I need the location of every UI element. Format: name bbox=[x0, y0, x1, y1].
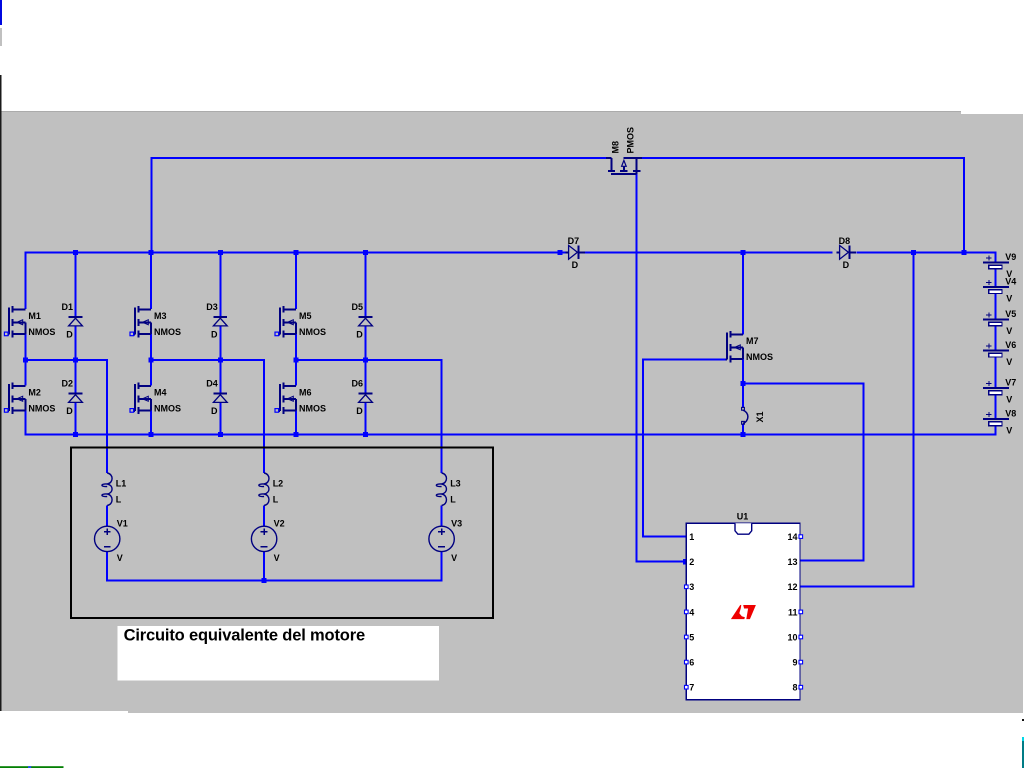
svg-text:D1: D1 bbox=[62, 302, 74, 312]
junction top rail x=559.8 bbox=[557, 250, 562, 255]
wire: M2 M4 M6 drains bbox=[25, 360, 296, 386]
svg-text:M4: M4 bbox=[154, 388, 167, 398]
svg-text:V: V bbox=[274, 553, 280, 563]
wire: top loop right bbox=[642, 158, 964, 252]
motor equivalent circuit box bbox=[71, 448, 493, 619]
svg-text:M3: M3 bbox=[154, 311, 167, 321]
U1 pin 4 marker bbox=[685, 610, 689, 614]
svg-text:M5: M5 bbox=[299, 311, 312, 321]
svg-text:X1: X1 bbox=[755, 411, 765, 422]
svg-text:V: V bbox=[451, 553, 457, 563]
wire: D3 leads bbox=[219, 252, 221, 360]
junction mid rail x=151 bbox=[149, 358, 154, 363]
junction top rail x=75.5 bbox=[73, 250, 78, 255]
svg-text:M1: M1 bbox=[28, 311, 41, 321]
junction bottom rail x=296 bbox=[294, 432, 299, 437]
junction top rail x=151 bbox=[149, 250, 154, 255]
junction M7 source node bbox=[741, 381, 746, 386]
wire: M5 drain bbox=[295, 252, 297, 309]
diode D6 bbox=[359, 393, 373, 395]
transistor M2 (NMOS) bbox=[8, 382, 26, 414]
svg-text:V7: V7 bbox=[1005, 378, 1016, 388]
svg-text:V: V bbox=[1006, 326, 1012, 336]
wire: top loop left bbox=[152, 158, 606, 252]
diode D2 bbox=[69, 393, 83, 395]
wire: M3 drain bbox=[150, 252, 152, 309]
svg-text:4: 4 bbox=[689, 607, 694, 617]
U1 pin 3 marker bbox=[685, 585, 689, 589]
junction mid rail x=220.3 bbox=[218, 358, 223, 363]
svg-text:V9: V9 bbox=[1005, 252, 1016, 262]
svg-text:6: 6 bbox=[689, 658, 694, 668]
svg-text:L1: L1 bbox=[116, 479, 127, 489]
svg-text:13: 13 bbox=[787, 557, 797, 567]
svg-text:NMOS: NMOS bbox=[28, 327, 55, 337]
voltage source V8 (battery) bbox=[983, 412, 1009, 426]
LT logo bbox=[731, 605, 756, 619]
svg-text:8: 8 bbox=[792, 683, 797, 693]
diode D5 bbox=[359, 316, 373, 318]
svg-text:U1: U1 bbox=[737, 512, 749, 522]
voltage source V5 (battery) bbox=[983, 312, 1009, 326]
svg-text:9: 9 bbox=[792, 658, 797, 668]
svg-text:D: D bbox=[211, 406, 218, 416]
svg-text:2: 2 bbox=[689, 557, 694, 567]
wire: phase B mid rail + tap bbox=[151, 360, 264, 473]
svg-text:V3: V3 bbox=[451, 519, 462, 529]
svg-text:L: L bbox=[273, 495, 279, 505]
svg-text:D: D bbox=[843, 260, 850, 270]
wire: M7 source to U1 pin13 bbox=[743, 384, 863, 561]
svg-text:D: D bbox=[356, 329, 363, 339]
wire: rail D7 to D8 bbox=[585, 251, 832, 253]
svg-text:NMOS: NMOS bbox=[154, 404, 181, 414]
wire: X1 leads bbox=[742, 384, 744, 435]
U1 pin 14 marker bbox=[799, 535, 803, 539]
wire: motor branch A/C bottoms bbox=[107, 506, 441, 581]
transistor M5 (NMOS) bbox=[278, 306, 296, 338]
caption box bbox=[118, 626, 439, 681]
voltage source V2 bbox=[251, 526, 276, 551]
wire: D2 leads bbox=[75, 360, 77, 435]
svg-text:V5: V5 bbox=[1005, 309, 1016, 319]
svg-text:NMOS: NMOS bbox=[28, 404, 55, 414]
svg-text:NMOS: NMOS bbox=[746, 352, 773, 362]
svg-text:D2: D2 bbox=[62, 379, 74, 389]
svg-text:5: 5 bbox=[689, 632, 694, 642]
svg-text:L3: L3 bbox=[450, 479, 461, 489]
junction bottom rail x=151 bbox=[149, 432, 154, 437]
svg-text:14: 14 bbox=[787, 532, 797, 542]
gate terminal square M3 bbox=[130, 332, 134, 336]
svg-text:V2: V2 bbox=[274, 519, 285, 529]
junction mid rail x=75.5 bbox=[73, 358, 78, 363]
voltage source V6 (battery) bbox=[983, 343, 1009, 357]
diode D8 bbox=[837, 251, 857, 253]
svg-text:D6: D6 bbox=[352, 379, 364, 389]
voltage source V1 bbox=[95, 526, 120, 551]
svg-text:D5: D5 bbox=[352, 302, 364, 312]
transistor M1 (NMOS) bbox=[8, 306, 26, 338]
wire: bottom source rail bbox=[25, 410, 995, 434]
junction top rail x=220.3 bbox=[218, 250, 223, 255]
U1 pin 6 marker bbox=[685, 660, 689, 664]
wire: D1 leads bbox=[75, 252, 77, 360]
diode D4 bbox=[213, 393, 227, 395]
svg-text:D3: D3 bbox=[206, 302, 218, 312]
wire: M7 gate to U1 pin1 bbox=[643, 360, 727, 537]
svg-text:11: 11 bbox=[788, 607, 798, 617]
svg-text:V4: V4 bbox=[1005, 277, 1016, 287]
svg-text:NMOS: NMOS bbox=[299, 327, 326, 337]
svg-text:D: D bbox=[572, 260, 579, 270]
junction bottom rail x=365.5 bbox=[363, 432, 368, 437]
U1 pin 5 marker bbox=[685, 635, 689, 639]
window edge artifact: gray bar bbox=[0, 28, 2, 46]
svg-text:NMOS: NMOS bbox=[299, 404, 326, 414]
inductor L1 bbox=[102, 473, 112, 506]
subcircuit X1 bbox=[743, 410, 748, 423]
svg-text:M2: M2 bbox=[28, 388, 41, 398]
wire: D5 leads bbox=[365, 252, 367, 360]
junction mid rail x=25.4 bbox=[23, 358, 28, 363]
right edge tick bbox=[1022, 719, 1024, 721]
U1 pin 11 marker bbox=[799, 610, 803, 614]
wire: U1 pin12 to supply rail bbox=[800, 252, 914, 586]
junction top rail x=365.5 bbox=[363, 250, 368, 255]
wire: battery stack links bbox=[994, 269, 996, 419]
transistor M4 (NMOS) bbox=[133, 382, 151, 414]
junction bottom rail x=743 bbox=[741, 432, 746, 437]
junction mid rail x=296 bbox=[294, 358, 299, 363]
svg-text:L: L bbox=[116, 495, 122, 505]
junction bottom rail x=220.3 bbox=[218, 432, 223, 437]
U1 pin 10 marker bbox=[799, 635, 803, 639]
svg-text:D: D bbox=[356, 406, 363, 416]
wire: rail D8 to battery bbox=[856, 252, 995, 262]
wire: D6 leads bbox=[365, 360, 367, 435]
voltage source V3 bbox=[429, 526, 454, 551]
svg-text:10: 10 bbox=[787, 632, 797, 642]
gate terminal square M5 bbox=[275, 332, 279, 336]
taskbar fragment green bar bbox=[0, 766, 64, 768]
svg-text:V: V bbox=[117, 553, 123, 563]
gate terminal square M4 bbox=[130, 409, 134, 413]
svg-text:Circuito equivalente del motor: Circuito equivalente del motore bbox=[124, 627, 365, 645]
op-amp/IC U1 body bbox=[686, 523, 800, 699]
svg-text:V8: V8 bbox=[1005, 409, 1016, 419]
junction bottom rail x=75.5 bbox=[73, 432, 78, 437]
U1 notch bbox=[735, 523, 752, 534]
wire: motor branch B bbox=[263, 506, 265, 581]
U1 pin 7 marker bbox=[685, 685, 689, 689]
svg-text:V6: V6 bbox=[1005, 340, 1016, 350]
inductor L3 bbox=[436, 473, 446, 506]
diode D3 bbox=[213, 316, 227, 318]
svg-text:M8: M8 bbox=[610, 141, 620, 154]
window edge artifact: blue bar top-left bbox=[0, 0, 2, 25]
svg-text:D7: D7 bbox=[568, 236, 580, 246]
junction top rail x=296 bbox=[294, 250, 299, 255]
svg-text:3: 3 bbox=[689, 582, 694, 592]
transistor M3 (NMOS) bbox=[133, 306, 151, 338]
svg-text:M6: M6 bbox=[299, 388, 312, 398]
wire: M8 drain to U1 pin2 bbox=[637, 174, 687, 562]
svg-text:L2: L2 bbox=[273, 479, 284, 489]
schematic window background bbox=[1, 114, 1023, 711]
U1 pin 8 marker bbox=[799, 685, 803, 689]
junction U1 pin2 bbox=[683, 559, 689, 565]
junction motor star point bbox=[262, 578, 267, 583]
svg-text:M7: M7 bbox=[746, 336, 759, 346]
junction mid rail x=365.5 bbox=[363, 358, 368, 363]
gate terminal square M1 bbox=[4, 332, 8, 336]
transistor M8 (PMOS, rotated) bbox=[606, 158, 642, 174]
transistor M6 (NMOS) bbox=[278, 382, 296, 414]
junction top rail x=743 bbox=[741, 250, 746, 255]
svg-text:7: 7 bbox=[689, 683, 694, 693]
transistor M7 (NMOS) bbox=[725, 331, 743, 363]
junction top rail x=963.9 bbox=[961, 250, 966, 255]
diode D7 bbox=[566, 251, 586, 253]
gate terminal square M2 bbox=[4, 409, 8, 413]
wire: M4 M6 sources bbox=[151, 410, 296, 434]
svg-text:V: V bbox=[1006, 294, 1012, 304]
svg-text:D4: D4 bbox=[206, 379, 218, 389]
svg-text:V: V bbox=[1006, 426, 1012, 436]
inductor L2 bbox=[259, 473, 269, 506]
wire: D4 leads bbox=[219, 360, 221, 435]
svg-text:L: L bbox=[450, 495, 456, 505]
svg-text:D: D bbox=[66, 329, 73, 339]
svg-text:12: 12 bbox=[787, 582, 797, 592]
U1 pin 9 marker bbox=[799, 660, 803, 664]
svg-text:V: V bbox=[1006, 357, 1012, 367]
wire: motor branch C top bbox=[441, 506, 443, 527]
svg-text:1: 1 bbox=[689, 532, 694, 542]
voltage source V9 (battery) bbox=[983, 255, 1009, 269]
svg-text:PMOS: PMOS bbox=[625, 127, 635, 154]
diode D1 bbox=[69, 316, 83, 318]
wire: M7 drain bbox=[742, 252, 744, 334]
svg-text:D: D bbox=[211, 329, 218, 339]
svg-text:D8: D8 bbox=[839, 236, 851, 246]
wire: phase A mid rail + tap bbox=[25, 360, 107, 473]
wire: M7 source bbox=[742, 359, 744, 384]
wire: M1 M3 M5 sources bbox=[25, 334, 296, 360]
svg-text:D: D bbox=[66, 406, 73, 416]
svg-text:NMOS: NMOS bbox=[154, 327, 181, 337]
right edge teal fragment bbox=[1022, 737, 1024, 741]
voltage source V7 (battery) bbox=[983, 381, 1009, 395]
wire: top rail left of D7 bbox=[25, 252, 566, 309]
gate terminal square M6 bbox=[275, 409, 279, 413]
voltage source V4 (battery) bbox=[983, 280, 1009, 294]
window edge dark line bbox=[0, 75, 2, 711]
svg-text:V: V bbox=[1006, 395, 1012, 405]
junction top rail x=913.7 bbox=[911, 250, 916, 255]
wire: phase C mid rail + tap bbox=[296, 360, 442, 473]
svg-text:V1: V1 bbox=[117, 519, 128, 529]
